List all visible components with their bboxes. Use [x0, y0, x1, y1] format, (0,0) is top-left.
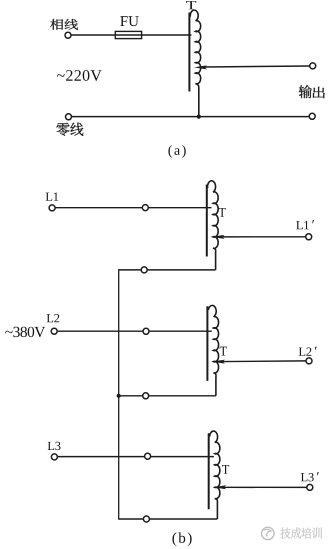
fuse FU body [115, 31, 141, 38]
label ~380V [5, 327, 45, 338]
label 相线 (phase line) [50, 19, 78, 30]
wire neutral line [72, 116, 310, 118]
junction dot neutral-winding (a) [197, 115, 201, 119]
terminal mid L2 wire [143, 328, 149, 334]
label T (b2) [220, 347, 227, 356]
tap arrow wire (b3) [224, 486, 307, 488]
terminal L1prime [306, 234, 312, 240]
transformer T winding (a) [190, 10, 200, 116]
terminal mid L3 wire [145, 453, 151, 459]
terminal L2 [51, 328, 57, 334]
label L3 [48, 442, 61, 450]
terminal phase-line input [65, 32, 71, 38]
transformer T3 winding [210, 431, 220, 519]
terminal mid L1 wire [142, 205, 148, 211]
wire T2 bottom to bus [119, 395, 216, 397]
wire L1 to transformer T1 [55, 207, 212, 209]
label L1 [46, 193, 59, 201]
wire through fuse [115, 34, 141, 36]
wire T1 bottom to bus [119, 269, 216, 271]
label T (a) [186, 1, 196, 9]
tap arrowhead (b2) [212, 360, 225, 364]
label 输出 (output) [299, 85, 325, 98]
terminal L3prime [307, 484, 313, 490]
terminal neutral left [66, 114, 72, 120]
terminal L1 [49, 205, 55, 211]
wire phase line to fuse [71, 34, 115, 36]
terminal L3 [51, 454, 57, 460]
wire vertical bus [118, 269, 120, 519]
transformer T1 core [206, 185, 208, 257]
label (a) [168, 145, 185, 158]
transformer T2 winding [208, 305, 218, 395]
label T (b1) [219, 208, 226, 217]
watermark text 技成培训 [281, 527, 322, 538]
terminal on T1 bottom wire [141, 267, 147, 273]
transformer T3 core [208, 433, 210, 509]
tap arrowhead (b1) [211, 235, 224, 239]
label ~220V [57, 70, 102, 81]
terminal on T3 bottom wire [143, 516, 149, 522]
label T (b3) [222, 465, 229, 474]
label (b) [172, 532, 191, 546]
transformer T1 winding [208, 181, 219, 270]
tap arrowhead (a) [194, 65, 207, 69]
terminal output top (a) [310, 63, 316, 69]
terminal on T2 bottom wire [143, 393, 149, 399]
watermark logo circle [262, 527, 274, 539]
label L3prime [301, 472, 319, 481]
tap arrow wire (a) [205, 66, 310, 67]
wire L3 to transformer T3 [57, 456, 214, 458]
wire fuse to transformer T [142, 34, 192, 36]
terminal L2prime [306, 358, 312, 364]
label L1prime [296, 220, 314, 229]
transformer T2 core [206, 306, 208, 381]
label L2prime [299, 347, 317, 356]
label FU [120, 16, 138, 26]
label L2 [47, 314, 60, 322]
wire T3 bottom to bus [119, 518, 218, 520]
junction dot bus-T2 [117, 394, 121, 398]
wire L2 to transformer T2 [57, 330, 212, 332]
tap arrow wire (b1) [222, 236, 306, 238]
label 零线 (neutral line) [56, 123, 83, 136]
tap arrow wire (b2) [222, 360, 306, 363]
transformer T core (a) [188, 13, 190, 92]
tap arrowhead (b3) [213, 485, 226, 489]
terminal output bottom (a) [309, 113, 315, 119]
